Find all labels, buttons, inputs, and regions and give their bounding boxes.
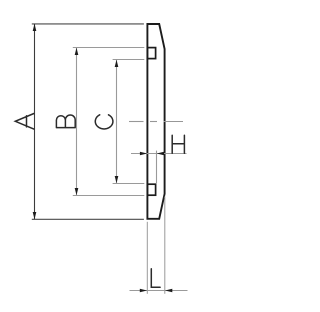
dimension C extension line bottom: [113, 183, 145, 185]
label C: [95, 115, 113, 129]
dimension H extension line: [156, 151, 158, 184]
dimension A extension line bottom: [32, 218, 144, 220]
dimension A line: [34, 24, 36, 219]
dimension L extension line left: [146, 222, 148, 294]
dimension A arrow up: [33, 24, 37, 31]
dimension B arrow down: [75, 188, 79, 195]
centerline: [129, 121, 183, 123]
dimension L line: [130, 290, 188, 292]
label A: [15, 114, 34, 130]
flange body outline: [147, 24, 164, 219]
dimension B arrow up: [75, 48, 79, 55]
dimension A extension line top: [32, 23, 144, 25]
label L: [151, 269, 160, 287]
label H: [172, 135, 184, 153]
dimension B extension line top: [73, 47, 145, 49]
dimension C line: [116, 60, 118, 184]
label B: [56, 115, 75, 128]
dimension A arrow down: [33, 212, 37, 219]
dimension C arrow up: [115, 60, 119, 67]
dimension B line: [76, 48, 78, 196]
dimension L arrow right-pointing: [140, 289, 147, 293]
dimension C extension line top: [113, 59, 145, 61]
dimension L arrow left-pointing: [165, 289, 172, 293]
o-ring groove bottom: [147, 184, 155, 195]
dimension H arrow left-pointing: [157, 152, 164, 156]
dimension H arrow right-pointing: [140, 152, 147, 156]
dimension B extension line bottom: [73, 195, 145, 197]
o-ring groove top: [147, 48, 155, 59]
dimension C arrow down: [115, 176, 119, 183]
dimension L extension line right: [164, 197, 166, 294]
dimension H line: [131, 153, 187, 155]
